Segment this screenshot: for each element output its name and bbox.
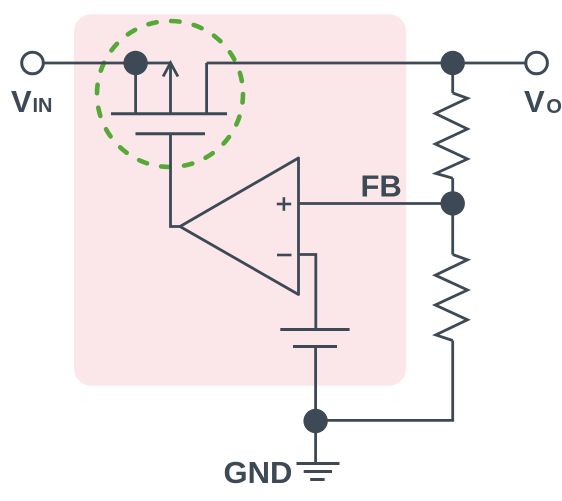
terminal VO bbox=[526, 52, 548, 74]
resistor R1 bbox=[435, 63, 467, 203]
IC body (regulator block) bbox=[74, 14, 406, 386]
resistor R2 bbox=[435, 203, 467, 341]
op-amp U1 plus pin marker bbox=[277, 197, 291, 211]
terminal VIN bbox=[22, 52, 44, 74]
op-amp U1 bbox=[180, 158, 299, 295]
node FB junction bbox=[441, 191, 465, 215]
transistor Q1 channel bar bbox=[111, 112, 227, 115]
svg-text:FB: FB bbox=[361, 169, 402, 204]
transistor Q1 drain stub bbox=[205, 63, 208, 114]
wire gate to op-amp output bbox=[171, 134, 181, 227]
svg-text:O: O bbox=[546, 96, 562, 118]
transistor Q1 body arrow bbox=[163, 63, 178, 114]
wire FB (op-amp plus input to divider) bbox=[299, 202, 453, 205]
svg-text:V: V bbox=[11, 84, 32, 119]
node source junction bbox=[123, 51, 147, 75]
wire op-amp minus input to reference bbox=[299, 255, 316, 330]
wire R2 bottom to ground node bbox=[316, 341, 453, 421]
svg-text:IN: IN bbox=[33, 95, 53, 117]
highlight circle around pass transistor bbox=[97, 21, 243, 167]
wire node to ground symbol bbox=[314, 421, 317, 464]
wire VIN to transistor source rail bbox=[44, 62, 171, 65]
wire drain to VO rail bbox=[207, 62, 526, 65]
node GND junction bbox=[303, 409, 327, 433]
svg-text:GND: GND bbox=[224, 455, 293, 490]
transistor Q1 source stub bbox=[134, 63, 137, 114]
svg-text:V: V bbox=[524, 84, 545, 119]
ground bbox=[297, 464, 340, 480]
node VO junction bbox=[441, 51, 465, 75]
wire reference to ground node bbox=[314, 347, 317, 422]
reference battery top plate bbox=[280, 328, 349, 331]
transistor Q1 gate bar bbox=[136, 132, 206, 135]
op-amp U1 minus pin marker bbox=[277, 254, 292, 257]
reference battery bottom plate bbox=[293, 345, 337, 348]
